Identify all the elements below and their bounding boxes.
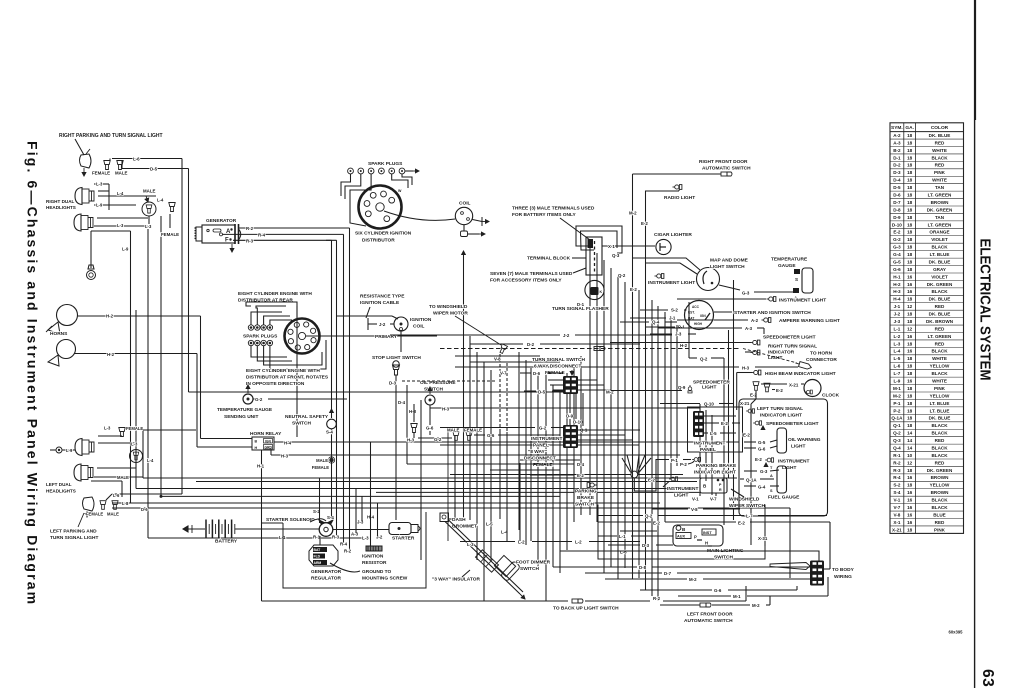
svg-text:TAN: TAN (935, 185, 945, 190)
left parking lamp (83, 497, 95, 511)
svg-text:LIGHT: LIGHT (791, 444, 805, 450)
svg-text:V-1: V-1 (893, 498, 900, 503)
wire G-2 into 8 way (440, 427, 535, 429)
svg-text:18: 18 (907, 230, 913, 235)
wire H-3 from relay (270, 450, 272, 455)
svg-text:Q-10: Q-10 (704, 402, 714, 407)
svg-text:DISTRIBUTOR AT FRONT, ROTAT: DISTRIBUTOR AT FRONT, ROTATES (246, 375, 329, 381)
svg-text:G-3: G-3 (742, 291, 750, 296)
instrument panel enclosure (688, 407, 743, 452)
svg-text:G-5: G-5 (758, 440, 766, 445)
svg-text:L-6: L-6 (893, 364, 900, 369)
vertical wire bundle instrument (589, 246, 591, 515)
wire D-2 (470, 343, 523, 345)
svg-text:D-5: D-5 (150, 167, 158, 172)
svg-text:16: 16 (907, 512, 913, 517)
svg-text:SPARK PLUGS: SPARK PLUGS (243, 334, 278, 340)
svg-text:LIGHT: LIGHT (674, 493, 688, 499)
svg-text:L-9: L-9 (96, 203, 103, 208)
svg-text:D-3: D-3 (642, 543, 650, 548)
horn lower (57, 340, 76, 359)
wire D-4 drop (406, 385, 408, 464)
wire H-2 horn feed upper (78, 315, 201, 317)
svg-text:RIGHT PARKING AND TURN SIG: RIGHT PARKING AND TURN SIGNAL LIGHT (59, 133, 163, 139)
svg-text:GENERATOR: GENERATOR (311, 569, 342, 575)
svg-text:FEMALE: FEMALE (126, 426, 143, 431)
svg-text:BLACK: BLACK (931, 453, 948, 458)
svg-text:18: 18 (907, 222, 913, 227)
svg-text:LIGHT: LIGHT (768, 355, 782, 361)
svg-text:10: 10 (907, 453, 913, 458)
svg-text:18: 18 (907, 245, 913, 250)
svg-text:L-5: L-5 (893, 356, 900, 361)
wire D-4 long (407, 463, 574, 465)
svg-text:D-3: D-3 (389, 381, 397, 386)
svg-text:18: 18 (907, 207, 913, 212)
svg-text:L-3: L-3 (131, 442, 138, 447)
svg-text:EIGHT CYLINDER ENGINE WITH: EIGHT CYLINDER ENGINE WITH (246, 368, 320, 374)
svg-text:WHITE: WHITE (932, 379, 947, 384)
svg-text:FUEL GAUGE: FUEL GAUGE (768, 495, 800, 501)
svg-text:V-1: V-1 (692, 497, 699, 502)
svg-text:TO BACK UP LIGHT SWITCH: TO BACK UP LIGHT SWITCH (553, 606, 619, 612)
svg-text:J-3: J-3 (675, 332, 682, 337)
svg-text:ACC: ACC (692, 305, 700, 309)
svg-text:L-4: L-4 (157, 198, 164, 203)
svg-text:D-7: D-7 (893, 200, 901, 205)
svg-text:RIGHT FRONT DOOR: RIGHT FRONT DOOR (699, 159, 748, 165)
to body wiring connector (810, 561, 824, 586)
svg-text:RADIO LIGHT: RADIO LIGHT (664, 195, 695, 201)
svg-text:IN OPPOSITE DIRECTION: IN OPPOSITE DIRECTION (246, 381, 305, 387)
svg-text:BAT: BAT (314, 548, 322, 552)
svg-text:AUTOMATIC SWITCH: AUTOMATIC SWITCH (684, 618, 733, 624)
svg-text:WIRING: WIRING (834, 574, 852, 580)
svg-text:LEFT TURN SIGNAL: LEFT TURN SIGNAL (757, 406, 803, 412)
svg-text:TURN SIGNAL LIGHT: TURN SIGNAL LIGHT (50, 535, 98, 541)
vertical drops to solenoid area (319, 478, 321, 523)
svg-text:LT. GREEN: LT. GREEN (928, 334, 952, 339)
svg-text:Q-1A: Q-1A (746, 478, 757, 483)
wire bus y488 (136, 488, 697, 490)
svg-text:BLACK: BLACK (931, 155, 948, 160)
wire L-8 bus (112, 502, 660, 504)
svg-text:D-5: D-5 (893, 185, 901, 190)
svg-text:LEFT PARKING AND: LEFT PARKING AND (50, 529, 97, 535)
svg-text:V-7: V-7 (710, 497, 717, 502)
left headlight lower (74, 464, 93, 481)
svg-text:L-3: L-3 (145, 224, 152, 229)
vertical wire L-6 (181, 159, 183, 495)
left male circle connector (130, 450, 143, 463)
svg-text:YELLOW: YELLOW (930, 483, 950, 488)
svg-text:FEMALE: FEMALE (312, 465, 329, 470)
svg-text:18: 18 (907, 237, 913, 242)
svg-text:AUX: AUX (677, 535, 685, 539)
svg-text:G-2: G-2 (255, 397, 263, 402)
wire bus y478 (143, 477, 737, 479)
instrument cluster enclosure box (739, 399, 828, 516)
svg-text:M-1: M-1 (893, 386, 901, 391)
svg-text:18: 18 (907, 527, 913, 532)
svg-text:L-2: L-2 (518, 540, 525, 545)
svg-text:BLACK: BLACK (931, 423, 948, 428)
turn signal flasher (585, 280, 604, 299)
svg-text:18: 18 (907, 259, 913, 264)
svg-text:18: 18 (907, 155, 913, 160)
svg-text:18: 18 (907, 468, 913, 473)
svg-text:G-6: G-6 (758, 447, 766, 452)
svg-text:S-2: S-2 (671, 308, 678, 313)
wire L-2 (460, 541, 515, 543)
vertical X-21 drop (750, 404, 752, 545)
wires to map switch (633, 258, 701, 270)
vertical wire D-5 (188, 169, 190, 393)
wire lead boot (770, 563, 810, 570)
svg-text:DK. GREEN: DK. GREEN (927, 468, 953, 473)
svg-text:COLOR: COLOR (931, 125, 949, 131)
wire M-2 to body (605, 578, 687, 580)
ignition coil primary (394, 317, 408, 331)
svg-text:E-2: E-2 (648, 478, 655, 483)
right parking lamp (80, 154, 92, 168)
wire D-5 long horizontal (189, 391, 564, 393)
svg-text:18: 18 (907, 386, 913, 391)
svg-text:TO BODY: TO BODY (832, 567, 855, 573)
svg-text:18: 18 (907, 408, 913, 413)
svg-text:D-10: D-10 (892, 222, 902, 227)
svg-text:R-2: R-2 (653, 596, 661, 601)
svg-text:E-2: E-2 (577, 473, 584, 478)
svg-text:S-4: S-4 (327, 515, 334, 520)
wire A-2 ampere warning light (677, 319, 713, 321)
svg-text:HORNS: HORNS (50, 331, 68, 337)
svg-text:PARKING BRAKE: PARKING BRAKE (696, 463, 737, 469)
instrument panel connector (693, 411, 704, 437)
svg-text:16: 16 (907, 274, 913, 279)
svg-text:RED: RED (935, 163, 945, 168)
svg-text:X-1: X-1 (608, 244, 615, 249)
cigar lighter (656, 239, 671, 254)
svg-text:VIOLET: VIOLET (931, 274, 948, 279)
svg-text:LT. BLUE: LT. BLUE (930, 408, 950, 413)
svg-text:SWITCH: SWITCH (575, 502, 594, 508)
svg-text:18: 18 (907, 215, 913, 220)
svg-text:"8 WAY": "8 WAY" (528, 449, 547, 455)
svg-text:D-6: D-6 (141, 507, 148, 512)
svg-text:IGN: IGN (265, 439, 271, 443)
vertical wire L-5 from coil (463, 251, 465, 262)
svg-text:SPEEDOMETER LIGHT: SPEEDOMETER LIGHT (766, 421, 819, 427)
svg-text:16: 16 (907, 498, 913, 503)
svg-text:S-4: S-4 (893, 490, 901, 495)
svg-text:STARTER AND IGNITION SWITCH: STARTER AND IGNITION SWITCH (734, 310, 811, 316)
svg-text:SYM.: SYM. (891, 125, 903, 131)
svg-text:REGULATOR: REGULATOR (311, 576, 341, 582)
svg-text:SEVEN (7) MALE TERMINALS U: SEVEN (7) MALE TERMINALS USED (490, 271, 573, 277)
svg-text:18: 18 (907, 393, 913, 398)
temperature gauge (802, 268, 813, 293)
svg-text:MALE: MALE (115, 171, 128, 176)
svg-text:INSTRUMENT: INSTRUMENT (694, 441, 726, 447)
vertical wire L-4 centre (519, 463, 521, 541)
svg-text:X-1: X-1 (893, 520, 901, 525)
wire D-3 drop (395, 375, 397, 520)
svg-text:Q-4: Q-4 (893, 445, 901, 450)
wire H-3 to horn connector (455, 366, 739, 368)
svg-text:R-2: R-2 (344, 549, 352, 554)
horn upper (57, 305, 78, 326)
svg-text:D-9: D-9 (566, 414, 574, 419)
wire J-2 long (390, 334, 560, 336)
svg-text:CLOCK: CLOCK (822, 393, 840, 399)
coil condenser stub (473, 220, 483, 222)
svg-text:HIGH BEAM INDICATOR LIGHT: HIGH BEAM INDICATOR LIGHT (765, 371, 836, 377)
neutral safety switch (327, 419, 337, 429)
svg-text:18: 18 (907, 133, 913, 138)
svg-text:16: 16 (907, 334, 913, 339)
svg-text:S-2: S-2 (893, 483, 901, 488)
svg-text:D-5: D-5 (538, 390, 546, 395)
wire D-7 (585, 572, 662, 574)
svg-text:MOUNTING SCREW: MOUNTING SCREW (362, 576, 408, 582)
svg-text:INSTRUMENT LIGHT: INSTRUMENT LIGHT (779, 298, 826, 304)
svg-text:TAN: TAN (935, 215, 945, 220)
svg-text:6 WAY DISCONNECT: 6 WAY DISCONNECT (534, 364, 582, 370)
wire R-3 (233, 239, 337, 241)
right parking connector male (117, 161, 123, 170)
svg-text:VIOLET: VIOLET (931, 237, 948, 242)
vertical R-2 bus (349, 228, 351, 550)
svg-text:H-1: H-1 (257, 464, 265, 469)
svg-text:SWITCH: SWITCH (520, 566, 539, 572)
svg-text:PINK: PINK (934, 527, 946, 532)
svg-text:18: 18 (907, 341, 913, 346)
svg-text:18: 18 (907, 267, 913, 272)
svg-text:L-8: L-8 (122, 501, 129, 506)
speedometer light top (610, 342, 751, 344)
six cylinder spark plugs (348, 168, 354, 174)
three way insulator (476, 550, 499, 572)
vertical wire from front distributor (296, 306, 298, 437)
svg-text:WINDSHIELD: WINDSHIELD (729, 497, 760, 503)
svg-text:H-1: H-1 (893, 274, 901, 279)
connector male circle (142, 202, 156, 216)
svg-text:Q-3: Q-3 (893, 438, 901, 443)
left headlight upper (75, 439, 94, 456)
svg-text:L-1: L-1 (893, 326, 900, 331)
svg-text:BLACK: BLACK (931, 505, 948, 510)
svg-text:18: 18 (907, 140, 913, 145)
svg-text:DK. BLUE: DK. BLUE (929, 312, 951, 317)
svg-text:H-2: H-2 (106, 314, 114, 319)
terminal block wire loops (576, 226, 622, 253)
wire V-8 stub (652, 508, 688, 510)
svg-text:SENDING UNIT: SENDING UNIT (224, 414, 258, 420)
svg-text:G-3: G-3 (760, 469, 768, 474)
svg-text:INSTRUMENT: INSTRUMENT (531, 436, 563, 442)
svg-text:H-3: H-3 (407, 438, 415, 443)
svg-text:J-3: J-3 (894, 319, 901, 324)
headlight wiring jogs (98, 190, 109, 192)
svg-text:RIGHT TURN SIGNAL: RIGHT TURN SIGNAL (768, 344, 817, 350)
wires from instrument panel connector (704, 415, 736, 417)
svg-text:DK. BLUE: DK. BLUE (929, 416, 951, 421)
svg-text:D-8: D-8 (639, 565, 647, 570)
svg-text:J-2: J-2 (563, 333, 570, 338)
connector female by male circle (169, 203, 175, 212)
wire to back up light switch (572, 599, 583, 603)
svg-text:J-2: J-2 (894, 312, 901, 317)
wire H-2 dashed to horn connector (440, 348, 740, 350)
vertical wire x143 (142, 430, 144, 478)
svg-text:TERMINAL BLOCK: TERMINAL BLOCK (527, 256, 571, 262)
terminal block (586, 237, 602, 275)
svg-text:M-2: M-2 (752, 603, 760, 608)
wire R-4 (220, 233, 223, 236)
eight cyl spark plugs bottom row (248, 340, 253, 345)
svg-text:G-4: G-4 (893, 252, 901, 257)
svg-text:Q-4: Q-4 (652, 320, 660, 325)
svg-text:14: 14 (907, 431, 913, 436)
svg-text:GA.: GA. (905, 125, 914, 131)
svg-text:J-1: J-1 (669, 316, 676, 321)
svg-text:16: 16 (907, 475, 913, 480)
svg-text:L-6: L-6 (620, 550, 627, 555)
wire D-6 bus (112, 507, 790, 509)
svg-text:RIGHT DUAL: RIGHT DUAL (46, 199, 75, 204)
svg-text:R: R (719, 488, 722, 492)
six cyl distributor (359, 186, 402, 229)
vertical wire bundle center (420, 400, 422, 560)
svg-text:L-3: L-3 (893, 341, 900, 346)
svg-text:FEMALE: FEMALE (161, 232, 179, 237)
svg-text:INST: INST (703, 531, 712, 535)
wire distributor to coil (384, 211, 455, 220)
svg-text:DASH: DASH (452, 517, 466, 523)
svg-text:A-3: A-3 (745, 326, 753, 331)
svg-text:14: 14 (907, 445, 913, 450)
svg-text:TEMPERATURE: TEMPERATURE (771, 257, 808, 263)
svg-text:J-1: J-1 (894, 304, 901, 309)
svg-text:BLACK: BLACK (931, 431, 948, 436)
left parking connectors (100, 501, 106, 510)
dashed V-8 V-7 wires (499, 354, 501, 432)
svg-text:FOR BATTERY ITEMS ONLY: FOR BATTERY ITEMS ONLY (512, 212, 576, 218)
radio light (673, 185, 682, 190)
svg-text:L-2: L-2 (893, 334, 900, 339)
svg-text:DISCONNECT: DISCONNECT (524, 456, 556, 462)
svg-text:RED: RED (935, 520, 945, 525)
speedometer light right (753, 421, 761, 425)
svg-text:18: 18 (907, 319, 913, 324)
svg-text:IGNITION CABLE: IGNITION CABLE (360, 300, 400, 306)
svg-text:18: 18 (907, 297, 913, 302)
svg-text:IGNITION: IGNITION (410, 317, 432, 323)
coil lower lead (463, 225, 465, 231)
svg-text:W: W (398, 189, 402, 193)
svg-text:Q-2: Q-2 (893, 431, 901, 436)
svg-text:G-6: G-6 (893, 267, 901, 272)
svg-text:INSTRUMENT LIGHT: INSTRUMENT LIGHT (648, 280, 695, 286)
nested loop outline (246, 302, 297, 318)
clock (804, 380, 821, 397)
svg-text:L-1: L-1 (619, 534, 626, 539)
eight cyl distributor (285, 319, 320, 354)
svg-text:WHITE: WHITE (932, 356, 947, 361)
svg-text:FOR ACCESSORY ITEMS ONLY: FOR ACCESSORY ITEMS ONLY (490, 278, 562, 284)
ground to mounting screw (330, 563, 360, 572)
instrument light under gauge (767, 297, 776, 302)
parking brake switch (587, 483, 596, 488)
svg-text:R-3: R-3 (246, 238, 254, 243)
svg-text:X-31: X-31 (758, 536, 768, 541)
svg-text:R-4: R-4 (340, 542, 348, 547)
svg-text:D-4: D-4 (398, 400, 406, 405)
svg-text:BLACK: BLACK (931, 289, 948, 294)
svg-text:DK. BLUE: DK. BLUE (929, 259, 951, 264)
svg-text:MALE: MALE (447, 428, 460, 433)
wires out of 8 way (578, 429, 618, 431)
svg-text:X-21: X-21 (740, 401, 750, 406)
wire coil primary left lead (337, 315, 392, 317)
svg-text:G-2: G-2 (434, 437, 442, 442)
wire D-8 (553, 566, 637, 568)
svg-text:SIX CYLINDER IGNITION: SIX CYLINDER IGNITION (355, 231, 412, 237)
svg-text:R-4: R-4 (258, 232, 266, 237)
svg-text:R-1: R-1 (893, 453, 901, 458)
svg-text:J-2: J-2 (379, 322, 386, 327)
svg-text:PANEL: PANEL (700, 447, 716, 453)
right headlight upper (75, 188, 94, 205)
svg-text:H-2: H-2 (893, 282, 901, 287)
svg-text:H-3: H-3 (893, 289, 901, 294)
svg-text:LT. GREEN: LT. GREEN (928, 192, 952, 197)
svg-text:STARTER: STARTER (392, 536, 415, 542)
cable to dimmer switch (445, 522, 520, 595)
svg-text:M-2: M-2 (689, 577, 697, 582)
svg-text:H-3: H-3 (281, 454, 289, 459)
svg-text:18: 18 (907, 371, 913, 376)
svg-text:ARM: ARM (314, 561, 322, 565)
svg-text:RESISTOR: RESISTOR (362, 560, 387, 566)
svg-text:16: 16 (907, 520, 913, 525)
wire M-1 to body (678, 595, 731, 597)
svg-text:H-3: H-3 (742, 366, 750, 371)
svg-text:L-6: L-6 (113, 493, 120, 498)
svg-text:18: 18 (907, 356, 913, 361)
svg-text:E-2: E-2 (738, 521, 745, 526)
svg-text:BROWN: BROWN (931, 200, 950, 205)
wire L-4 bus (161, 495, 560, 497)
svg-text:D-9: D-9 (893, 215, 901, 220)
svg-text:V-8: V-8 (691, 507, 698, 512)
svg-text:FLD: FLD (314, 555, 321, 559)
wire R-2 (239, 227, 350, 229)
vertical wire L-4 from male connector (160, 216, 162, 496)
svg-text:TURN SIGNAL FLASHER: TURN SIGNAL FLASHER (552, 306, 609, 312)
coil primary drop (400, 331, 402, 352)
svg-text:INSTRUMENT: INSTRUMENT (778, 459, 810, 465)
svg-text:M-2: M-2 (893, 393, 901, 398)
svg-text:Q-2: Q-2 (645, 514, 653, 519)
bullet on dashed H-2 (594, 347, 605, 351)
svg-text:BLACK: BLACK (931, 445, 948, 450)
svg-text:MALE: MALE (316, 458, 328, 463)
vertical wire L-3 headlights (147, 229, 149, 538)
svg-text:BLACK: BLACK (931, 349, 948, 354)
svg-text:L-5: L-5 (710, 431, 717, 436)
